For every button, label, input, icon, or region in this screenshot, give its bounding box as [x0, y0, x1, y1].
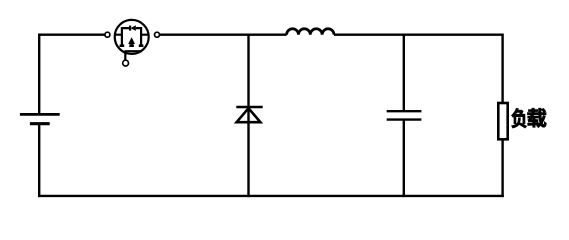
wire capacitor branch [403, 34, 405, 198]
wire bottom rail [38, 195, 504, 197]
transistor VT (MOSFET switch with body diode) [105, 20, 160, 66]
battery E (DC source) [20, 114, 60, 123]
capacitor C [387, 111, 422, 119]
wire right rail (load branch) [501, 34, 503, 198]
inductor L [287, 29, 334, 35]
wire diode branch [247, 34, 249, 198]
diode VD (freewheeling) [236, 107, 262, 122]
label "负载" (load) [512, 108, 547, 128]
wire top rail: inductor to top-right corner [334, 34, 503, 36]
wire left rail (battery branch) [38, 34, 40, 198]
load R (rectangle) [498, 103, 507, 139]
wire top rail: MOSFET to inductor (diode junction) [160, 34, 287, 36]
wire top rail: battery to MOSFET [39, 34, 104, 36]
